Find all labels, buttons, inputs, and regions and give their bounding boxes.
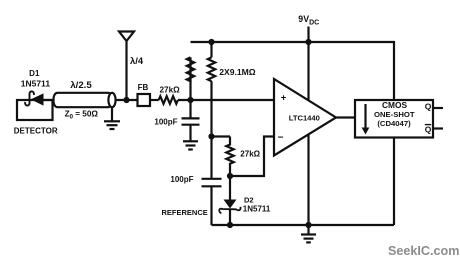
diode D2 (1N5711 schottky) xyxy=(219,176,240,225)
label pin Qbar xyxy=(425,124,432,134)
wire resistor to + input xyxy=(178,99,274,101)
node supply junction xyxy=(305,39,311,45)
node antenna junction xyxy=(123,97,129,103)
wire FB to resistor xyxy=(150,99,159,101)
svg-text:(CD4047): (CD4047) xyxy=(377,119,411,128)
node D2 cathode on rail xyxy=(227,222,233,228)
trigger arrow inside one-shot xyxy=(363,104,369,134)
wire node to 27k reference resistor xyxy=(212,135,231,137)
top supply rail wire xyxy=(191,42,395,101)
svg-text:DETECTOR: DETECTOR xyxy=(14,127,58,136)
svg-text:27kΩ: 27kΩ xyxy=(159,85,180,94)
ground under C1 xyxy=(183,141,198,149)
bottom ground rail wire xyxy=(212,224,395,226)
antenna lambda/4 xyxy=(119,32,134,100)
wire diode to transmission line xyxy=(42,99,54,101)
svg-text:+: + xyxy=(281,93,287,104)
comparator U1 LTC1440 xyxy=(274,79,336,156)
pin Q stub xyxy=(433,107,443,109)
ferrite bead FB xyxy=(138,94,151,106)
svg-text:FB: FB xyxy=(138,83,149,92)
resistor 27k vertical (reference) xyxy=(226,137,233,177)
wire V- pin xyxy=(307,135,309,226)
capacitor C1 100pF xyxy=(182,100,200,141)
ground under transmission line xyxy=(104,107,120,129)
resistor R1 27k horizontal xyxy=(159,96,178,104)
svg-text:D1: D1 xyxy=(29,69,40,78)
svg-text:LTC1440: LTC1440 xyxy=(289,114,320,123)
transmission line lambda/2.5 coax xyxy=(54,93,116,107)
svg-text:D2: D2 xyxy=(244,196,254,205)
svg-text:Q: Q xyxy=(425,101,432,111)
capacitor C2 100pF reference xyxy=(202,137,222,226)
svg-text:100pF: 100pF xyxy=(170,175,193,184)
pin Qbar stub xyxy=(433,127,443,129)
wire V+ pin xyxy=(307,42,309,101)
wire reference node to minus input xyxy=(230,137,274,177)
detector block box xyxy=(17,100,53,120)
node reference node xyxy=(227,173,233,179)
node ground junction on rail xyxy=(305,222,311,228)
svg-text:λ/2.5: λ/2.5 xyxy=(70,80,92,91)
svg-text:−: − xyxy=(278,133,284,144)
svg-text:1N5711: 1N5711 xyxy=(243,204,271,213)
wire one-shot bottom to rail xyxy=(393,138,395,226)
svg-text:SeekIC.com: SeekIC.com xyxy=(388,244,459,258)
node rail right resistor top xyxy=(208,39,214,45)
9VDC supply stem xyxy=(307,27,309,43)
one-shot U2 CD4047 box xyxy=(355,100,433,138)
svg-text:1N5711: 1N5711 xyxy=(21,78,51,88)
svg-text:2X9.1MΩ: 2X9.1MΩ xyxy=(219,67,256,77)
svg-text:λ/4: λ/4 xyxy=(130,55,144,66)
svg-text:ONE-SHOT: ONE-SHOT xyxy=(374,110,415,119)
node reference divider junction xyxy=(208,133,214,139)
resistor 9.1M (left of pair) xyxy=(187,57,194,82)
node + input junction xyxy=(187,97,193,103)
svg-text:CMOS: CMOS xyxy=(382,100,408,110)
resistor 9.1M (right of pair) xyxy=(208,42,215,137)
svg-text:REFERENCE: REFERENCE xyxy=(162,208,208,217)
svg-text:100pF: 100pF xyxy=(154,117,177,126)
diode D1 (1N5711 schottky) xyxy=(25,91,43,105)
wire comparator output xyxy=(336,116,355,118)
wire transmission line to FB xyxy=(116,99,138,101)
svg-text:Q: Q xyxy=(425,124,432,134)
svg-text:27kΩ: 27kΩ xyxy=(240,149,260,158)
ground symbol on rail xyxy=(301,225,316,242)
